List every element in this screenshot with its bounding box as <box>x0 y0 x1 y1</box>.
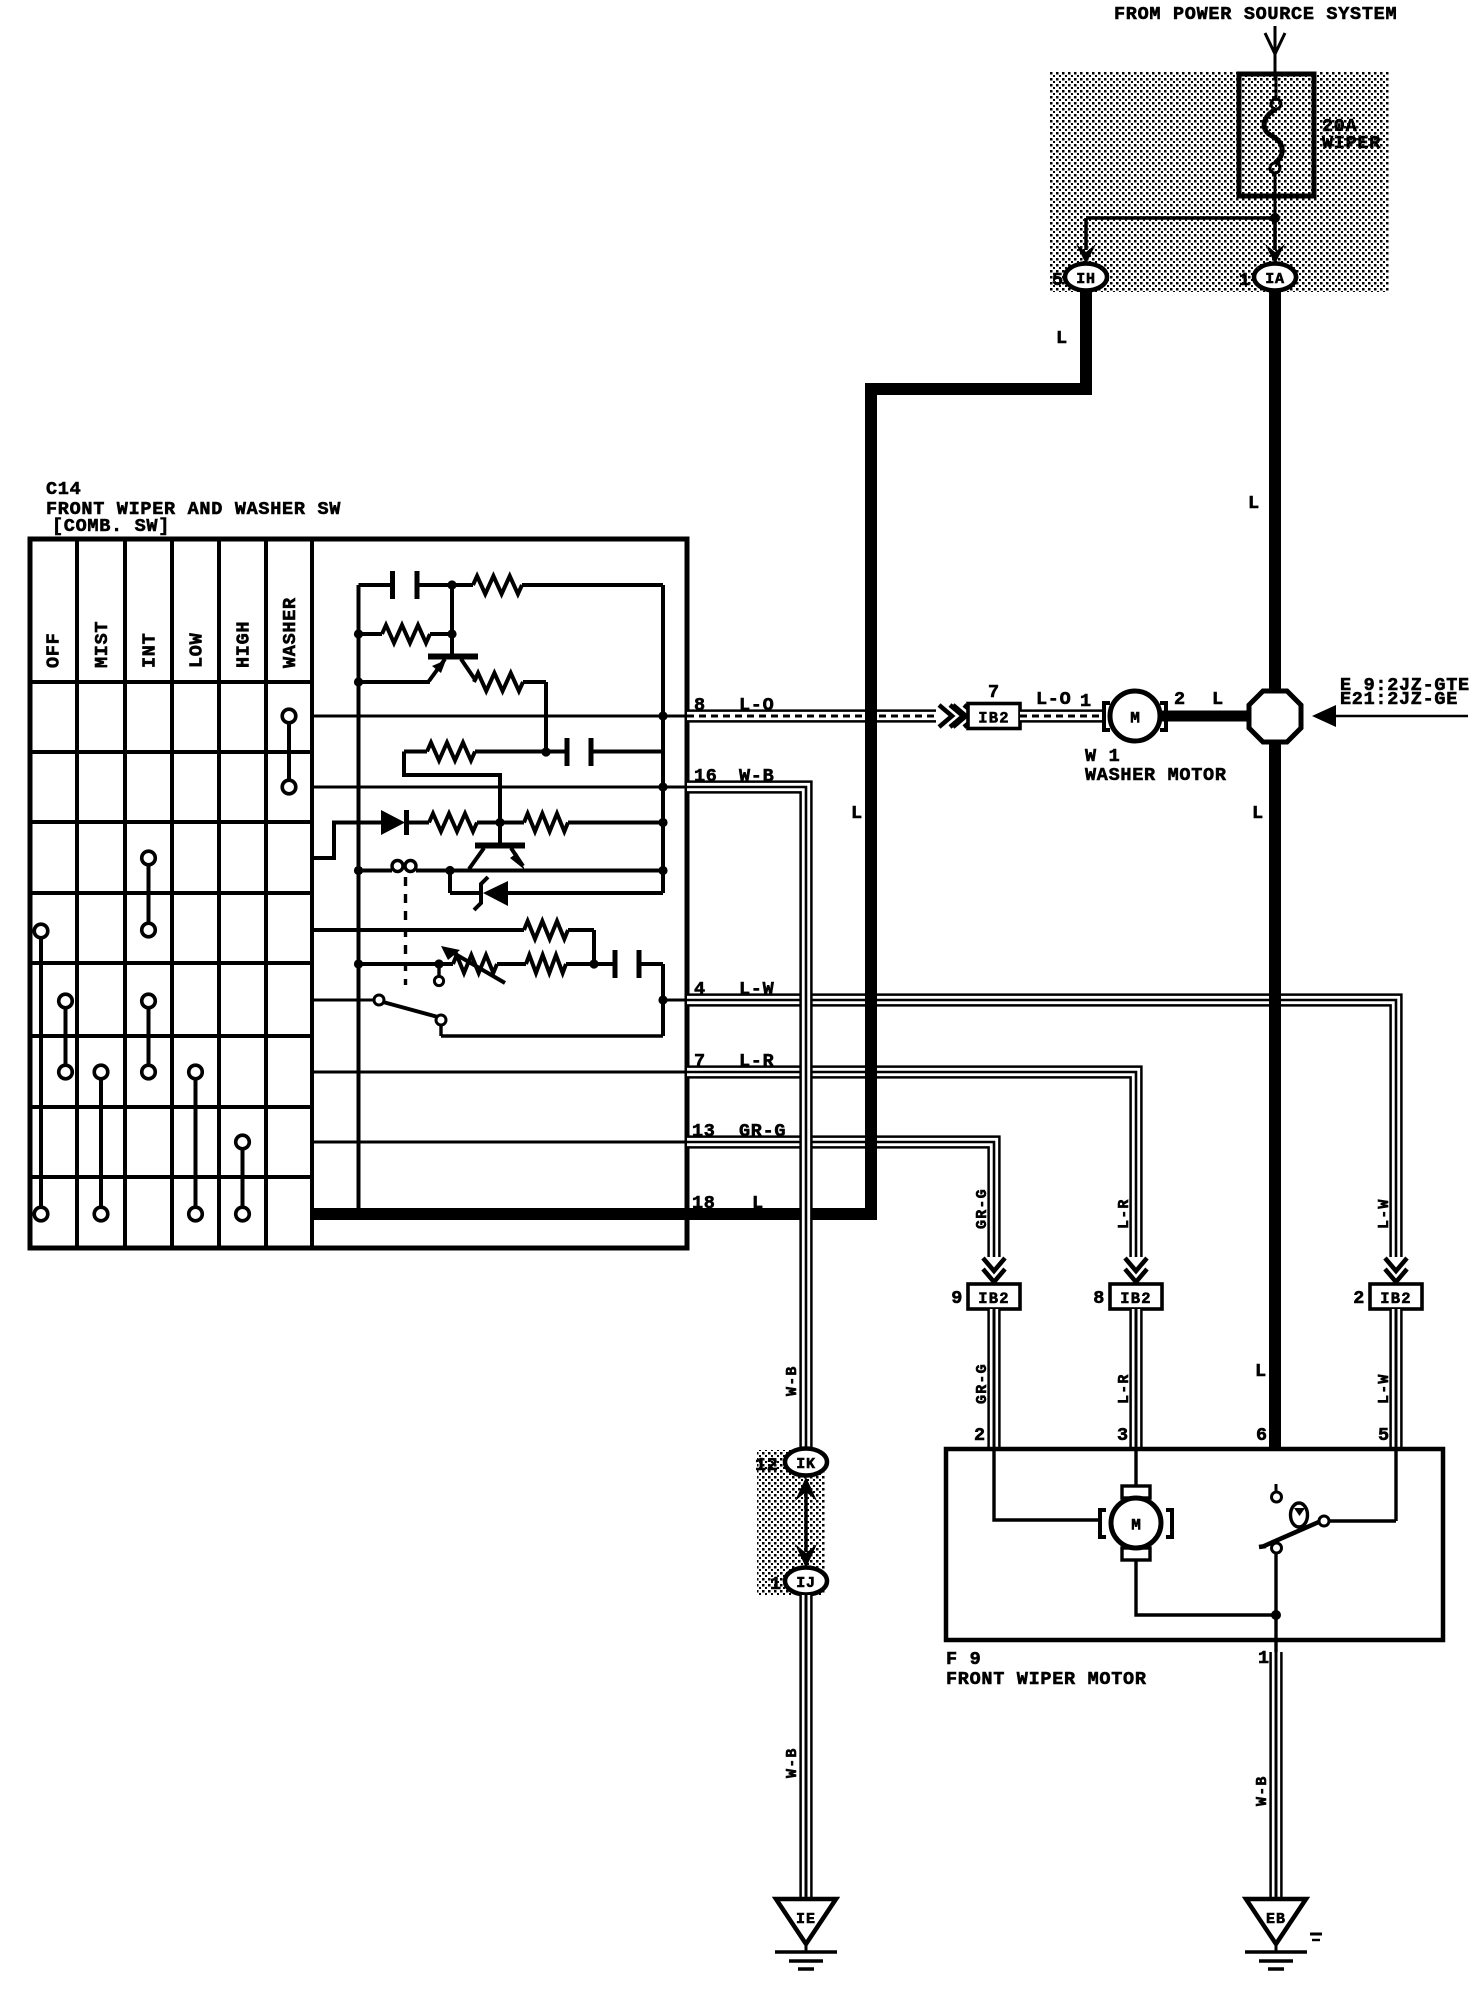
switch position contact chains <box>39 931 43 1214</box>
svg-text:GR-G: GR-G <box>974 1363 991 1404</box>
washer motor W1 <box>1104 703 1110 730</box>
table column lines <box>75 539 79 1248</box>
double arrow between connectors <box>804 1488 807 1552</box>
svg-text:L-R: L-R <box>1116 1373 1133 1404</box>
svg-text:FRONT WIPER MOTOR: FRONT WIPER MOTOR <box>946 1669 1147 1690</box>
inside wiring pin5 <box>1394 1449 1397 1521</box>
svg-text:L: L <box>1248 493 1260 514</box>
transistor Q1 (PNP) <box>450 585 454 656</box>
svg-text:WASHER: WASHER <box>280 597 301 668</box>
svg-text:5: 5 <box>1378 1425 1390 1446</box>
power branch wire <box>1086 216 1275 220</box>
table row lines <box>30 680 312 684</box>
thick L wire from 5(IH): down, left, down to switch pin 18 <box>871 290 1086 1214</box>
svg-text:9: 9 <box>951 1288 963 1309</box>
svg-text:E21:2JZ-GE: E21:2JZ-GE <box>1340 689 1458 710</box>
svg-text:L-W: L-W <box>1376 1198 1393 1229</box>
pin18 bus junction <box>353 1209 364 1220</box>
motor return wire <box>1136 1560 1276 1615</box>
svg-text:2: 2 <box>974 1425 986 1446</box>
capacitor C3 <box>613 950 618 978</box>
svg-text:8: 8 <box>1093 1288 1105 1309</box>
inside wiring pin3 <box>1134 1449 1137 1486</box>
ground EB <box>1246 1899 1306 1944</box>
inside wiring pin2 <box>994 1449 1100 1520</box>
svg-text:LOW: LOW <box>187 632 208 668</box>
svg-text:OFF: OFF <box>44 633 65 668</box>
svg-text:7: 7 <box>988 682 1000 703</box>
svg-text:WASHER MOTOR: WASHER MOTOR <box>1085 765 1227 786</box>
wire W-B from pin16 <box>687 787 806 1451</box>
switch box outline <box>30 539 687 1248</box>
svg-text:WIPER: WIPER <box>1322 133 1381 154</box>
svg-text:IB2: IB2 <box>978 1290 1010 1308</box>
svg-text:3: 3 <box>1117 1425 1129 1446</box>
svg-text:L: L <box>851 803 863 824</box>
svg-text:IB2: IB2 <box>1120 1290 1152 1308</box>
thick L wire: switch pin 18 row <box>312 1208 877 1220</box>
row3 <box>354 677 363 686</box>
wiper motor M <box>1122 1486 1150 1498</box>
svg-text:IB2: IB2 <box>1380 1290 1412 1308</box>
W-B wire to ground <box>800 1595 813 1899</box>
svg-text:EB: EB <box>1266 1911 1286 1928</box>
internal left bus <box>357 585 361 1214</box>
svg-text:1: 1 <box>770 1574 782 1595</box>
svg-text:L: L <box>1212 689 1224 710</box>
svg-text:2: 2 <box>1174 689 1186 710</box>
svg-text:GR-G: GR-G <box>974 1188 991 1229</box>
svg-text:M: M <box>1131 1517 1141 1535</box>
svg-text:L: L <box>1056 328 1068 349</box>
mechanical link (dashed) <box>404 877 407 985</box>
junction connector 2 IB2 <box>1385 1258 1407 1271</box>
svg-text:HIGH: HIGH <box>234 621 255 668</box>
wire L-R from pin7 <box>687 1072 1136 1257</box>
front wiper motor box <box>946 1449 1443 1640</box>
arrow from engine variants <box>1334 715 1468 718</box>
fuse 20A WIPER <box>1239 74 1314 196</box>
row1: capacitor C1 + resistor R1 <box>359 583 391 587</box>
arrow into connector 5 IH <box>1076 244 1096 264</box>
park switch contact from pin6 <box>1275 1484 1278 1492</box>
park switch arm <box>1259 1546 1266 1547</box>
relay coil row <box>354 866 363 875</box>
wire L-O from pin8 <box>687 710 936 723</box>
variable resistor row y=964 <box>354 959 363 968</box>
svg-text:W-B: W-B <box>784 1365 801 1396</box>
internal right vertical <box>661 585 665 893</box>
park cam <box>1291 1503 1308 1527</box>
svg-text:12: 12 <box>755 1455 779 1476</box>
svg-text:5: 5 <box>1052 270 1064 291</box>
svg-text:IJ: IJ <box>796 1575 816 1592</box>
svg-text:IH: IH <box>1076 271 1096 288</box>
svg-text:L: L <box>1255 1361 1267 1382</box>
ground IE <box>776 1899 836 1944</box>
row4: resistor R3 + capacitor C2 <box>541 747 550 756</box>
zener diode Z1 <box>448 871 452 894</box>
svg-text:IE: IE <box>796 1911 816 1928</box>
arrow into connector 1 IA <box>1265 244 1285 264</box>
resistor row y=930 <box>312 928 524 932</box>
svg-text:MIST: MIST <box>92 621 113 668</box>
fuse area halftone panel <box>1050 72 1389 292</box>
svg-text:INT: INT <box>140 633 161 668</box>
svg-text:IA: IA <box>1265 271 1285 288</box>
svg-text:W-B: W-B <box>1254 1775 1271 1806</box>
pin4 junction <box>663 999 687 1002</box>
svg-text:1: 1 <box>1258 1648 1270 1669</box>
diode D1 row <box>312 823 381 859</box>
svg-text:IK: IK <box>796 1456 816 1473</box>
thick L wire: washer motor to node <box>1160 711 1275 722</box>
pivot to junction <box>1272 1543 1282 1553</box>
svg-text:M: M <box>1130 710 1140 728</box>
svg-text:L-O: L-O <box>1036 689 1071 710</box>
svg-text:2: 2 <box>1353 1288 1365 1309</box>
svg-text:L-R: L-R <box>1116 1198 1133 1229</box>
wire from power source <box>1274 26 1277 78</box>
thick L wire from 1(IA) down to wiper motor pin 6 <box>1269 290 1281 1449</box>
junction connector 8 IB2 <box>1125 1258 1147 1271</box>
pin16 row inside switch <box>312 786 687 789</box>
transistor Q2 (NPN) <box>498 823 502 845</box>
W-B wire from wiper motor pin1 <box>1270 1652 1283 1899</box>
svg-text:L-W: L-W <box>1376 1373 1393 1404</box>
svg-text:C14: C14 <box>46 479 81 500</box>
variable resistor arrow <box>450 951 505 983</box>
svg-text:L: L <box>1252 803 1264 824</box>
node octagon <box>1249 691 1301 742</box>
row2: resistor R2 <box>354 629 363 638</box>
svg-text:1: 1 <box>1080 691 1092 712</box>
svg-text:1: 1 <box>1239 270 1251 291</box>
pin13 row <box>312 1141 687 1144</box>
svg-text:W-B: W-B <box>784 1747 801 1778</box>
wire GR-G from pin13 <box>687 1142 994 1257</box>
svg-text:6: 6 <box>1256 1425 1268 1446</box>
pin8 row inside switch <box>312 715 687 718</box>
svg-text:IB2: IB2 <box>978 710 1010 728</box>
svg-text:W 1: W 1 <box>1085 746 1120 767</box>
svg-text:FROM POWER SOURCE SYSTEM: FROM POWER SOURCE SYSTEM <box>1114 4 1397 25</box>
pin7 row <box>312 1071 687 1074</box>
INT switch arm and contacts <box>437 964 440 976</box>
wire L-O to washer motor <box>1020 710 1102 723</box>
junction connector 9 IB2 <box>983 1258 1005 1271</box>
svg-text:[COMB. SW]: [COMB. SW] <box>52 516 170 537</box>
connector IK/IJ halftone panel <box>757 1450 825 1596</box>
svg-text:F 9: F 9 <box>946 1649 981 1670</box>
wire L-W from pin4 <box>687 1000 1396 1257</box>
